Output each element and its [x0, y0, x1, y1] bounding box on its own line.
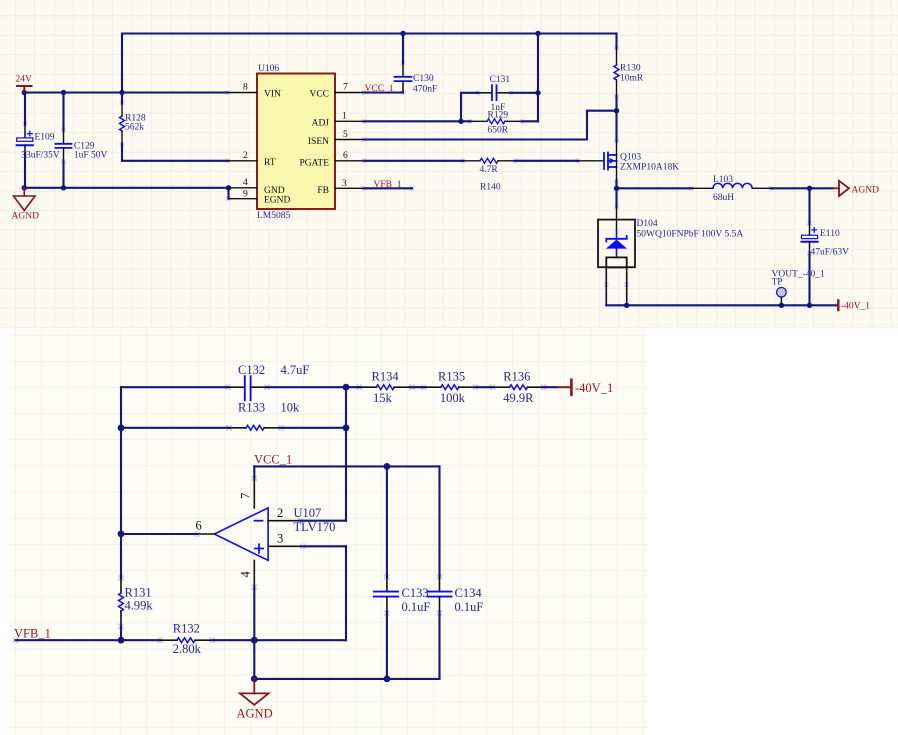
svg-text:D104: D104 [637, 219, 658, 229]
wire VFB row [16, 639, 161, 641]
svg-text:33uF/35V: 33uF/35V [21, 151, 60, 161]
node junction C132 row x346 [343, 384, 350, 391]
node junction E109 bottom [22, 185, 27, 190]
wire D104 anode legs [605, 267, 607, 305]
node junction C129 bottom [61, 185, 66, 190]
svg-text:15k: 15k [373, 391, 393, 405]
svg-text:VCC: VCC [309, 90, 329, 100]
node junction agnd row [251, 676, 258, 683]
transistor Q103 ZXMP10A18K [578, 160, 604, 162]
svg-text:EGND: EGND [264, 196, 291, 206]
node junction EGND jog [226, 185, 231, 190]
svg-text:AGND: AGND [237, 707, 273, 721]
svg-text:4: 4 [243, 178, 248, 188]
wire VCC to C130 [364, 91, 403, 93]
svg-text:-40V_1: -40V_1 [841, 302, 870, 312]
svg-text:2.80k: 2.80k [173, 642, 202, 656]
svg-text:U107: U107 [294, 506, 322, 520]
node junction TP stem [779, 303, 784, 308]
svg-text:3: 3 [277, 532, 283, 546]
resistor R128 562k vertical [121, 93, 123, 104]
resistor R133 10k [229, 427, 246, 429]
node junction C131 right [535, 90, 540, 95]
capacitor C131 1nF parallel branch [461, 93, 478, 122]
wire R133 row [121, 427, 229, 429]
resistor R131 4.99k vertical [120, 578, 122, 593]
svg-text:R140: R140 [480, 183, 501, 193]
capacitor C129 1uF 50V [62, 93, 64, 131]
svg-text:AGND: AGND [12, 212, 40, 222]
svg-text:1uF 50V: 1uF 50V [74, 151, 108, 161]
capacitor E109 33uF/35V polarized [24, 93, 26, 125]
resistor R135 100k [424, 386, 441, 388]
svg-text:100k: 100k [440, 391, 466, 405]
node junction switch node [614, 186, 619, 191]
wire top bus from corner x122 to R130 top [122, 34, 617, 93]
svg-text:AGND: AGND [852, 186, 880, 196]
pin 4 GND [229, 187, 258, 189]
svg-text:FB: FB [317, 186, 329, 196]
resistor R136 49.9R [493, 386, 510, 388]
pin 6 PGATE [335, 160, 364, 162]
svg-text:TP: TP [772, 278, 783, 288]
wire ISEN row with step up [364, 111, 617, 140]
pin 7 vcc [253, 466, 255, 478]
node junction R131 bottom [118, 637, 125, 644]
svg-text:4.7uF: 4.7uF [281, 363, 310, 377]
svg-text:4: 4 [239, 571, 253, 578]
node junction top bus / C131 [535, 31, 540, 36]
wire L103 to AGND port [771, 187, 833, 189]
wire left feedback vertical [120, 387, 122, 578]
wire C131 right vertical from top bus to ADJ row [537, 34, 539, 122]
svg-text:2: 2 [243, 151, 248, 161]
node junction E110 top [807, 186, 812, 191]
wire AGND row [254, 678, 439, 680]
wire output rail y305.3 [606, 304, 838, 306]
node junction C130 top [400, 31, 405, 36]
svg-text:VFB_1: VFB_1 [374, 180, 402, 190]
svg-text:ISEN: ISEN [308, 137, 329, 147]
wire FB stub [364, 187, 412, 189]
svg-text:10k: 10k [281, 401, 301, 415]
svg-text:C130: C130 [413, 74, 434, 84]
svg-text:470nF: 470nF [413, 85, 437, 95]
capacitor E110 47uF/63V polarized [808, 188, 810, 223]
node junction R133 row left [118, 424, 125, 431]
resistor R132 2.80k [160, 639, 177, 641]
node junction C133 bottom [384, 676, 391, 683]
wire VCC row [254, 465, 439, 467]
svg-text:7: 7 [239, 493, 253, 499]
resistor R134 15k [360, 386, 377, 388]
resistor R130 10mR vertical [615, 34, 617, 49]
node junction ISEN / R130 [614, 108, 619, 113]
svg-text:ZXMP10A18K: ZXMP10A18K [620, 163, 679, 173]
node junction C129 top [61, 90, 66, 95]
svg-text:562k: 562k [125, 122, 144, 132]
svg-text:Q103: Q103 [620, 153, 641, 163]
wire ADJ row y121.3 [364, 120, 470, 122]
capacitor C132 4.7uF [228, 386, 245, 388]
svg-text:VFB_1: VFB_1 [14, 627, 51, 641]
svg-text:LM5085: LM5085 [257, 211, 291, 221]
svg-text:6: 6 [343, 151, 348, 161]
svg-text:RT: RT [264, 158, 276, 168]
svg-text:VIN: VIN [264, 90, 281, 100]
node junction output row left [118, 531, 125, 538]
svg-text:0.1uF: 0.1uF [455, 600, 484, 614]
svg-text:GND: GND [264, 186, 285, 196]
svg-text:C132: C132 [238, 363, 265, 377]
svg-text:ADJ: ADJ [312, 118, 330, 128]
power port 24V [17, 86, 32, 93]
svg-text:R136: R136 [503, 370, 530, 384]
svg-text:2: 2 [277, 506, 283, 520]
pin 2 inverting [268, 520, 300, 522]
svg-text:PGATE: PGATE [299, 158, 329, 168]
svg-text:10mR: 10mR [620, 74, 644, 84]
svg-text:0.1uF: 0.1uF [402, 600, 431, 614]
svg-text:VCC_1: VCC_1 [365, 84, 394, 94]
svg-text:49.9R: 49.9R [503, 391, 534, 405]
pin 2 RT [228, 160, 257, 162]
wire EGND jog [227, 188, 229, 199]
svg-text:R132: R132 [173, 622, 200, 636]
node junction VCC row C133 [384, 463, 391, 470]
svg-text:E110: E110 [820, 229, 840, 239]
pin 1 ADJ [335, 120, 364, 122]
node junction ADJ / C131 branch [458, 119, 463, 124]
capacitor C130 470nF [402, 34, 404, 64]
svg-text:650R: 650R [488, 126, 509, 136]
svg-text:3: 3 [342, 179, 347, 189]
svg-text:E109: E109 [35, 133, 55, 143]
svg-text:U106: U106 [258, 64, 279, 74]
svg-text:R130: R130 [620, 64, 641, 74]
svg-text:24V: 24V [16, 75, 33, 85]
wire between R134 R135 [410, 386, 424, 388]
node junction D104 leg [624, 303, 629, 308]
pin 3 noninverting [268, 545, 302, 547]
node junction R128 top [119, 90, 124, 95]
wire C132 to R134 junction [267, 386, 360, 388]
svg-text:4.7R: 4.7R [480, 165, 499, 175]
pin 6 output [197, 533, 214, 535]
wire R136 to -40V_1 [544, 386, 558, 388]
pin 4 vee [253, 560, 255, 587]
wire between R135 R136 [476, 386, 493, 388]
wire switch node to L103 [617, 187, 692, 189]
pin 8 VIN [228, 92, 257, 94]
inductor L103 68uH [692, 187, 714, 189]
svg-text:VCC_1: VCC_1 [254, 453, 292, 467]
pin hotspot markers [13, 46, 812, 643]
capacitor C133 0.1uF [386, 466, 388, 577]
power port -40V_1 bottom [558, 386, 571, 388]
IC U106 LM5085 [257, 74, 335, 210]
svg-text:68uH: 68uH [713, 193, 734, 203]
ground AGND bottom [240, 679, 269, 705]
wire inverting feedback vertical x346 [345, 387, 347, 521]
pin 9 EGND [229, 198, 258, 200]
svg-text:6: 6 [196, 519, 202, 533]
ground AGND top-left [14, 188, 36, 211]
node junction 24V rail / E109 [22, 90, 27, 95]
svg-text:1: 1 [342, 111, 347, 121]
resistor R140 4.7R [463, 160, 480, 162]
resistor R129 650R [470, 120, 487, 122]
node junction pin4 VFB row [251, 637, 258, 644]
op-amp U107 TLV170 [214, 508, 268, 561]
svg-text:4.99k: 4.99k [125, 599, 154, 613]
wire C132 row left [121, 386, 228, 388]
svg-text:C133: C133 [402, 586, 429, 600]
pin 7 VCC [335, 92, 364, 94]
wire pin4 down to agnd row [253, 640, 255, 679]
svg-text:R134: R134 [372, 370, 400, 384]
wire PGATE row y160.8 [364, 160, 463, 162]
svg-text:R133: R133 [238, 401, 265, 415]
node junction E110 bottom [807, 303, 812, 308]
capacitor C134 0.1uF [438, 466, 440, 577]
svg-text:R131: R131 [125, 586, 152, 600]
pin 5 ISEN [335, 139, 364, 141]
svg-text:-40V_1: -40V_1 [575, 381, 613, 395]
svg-text:7: 7 [343, 83, 348, 93]
wire noninverting vertical x346 [345, 546, 347, 640]
wire switch node vertical [616, 167, 618, 181]
port AGND right [833, 181, 850, 196]
wire RT row y160.8 [122, 160, 228, 162]
svg-text:5: 5 [343, 130, 348, 140]
svg-text:R135: R135 [438, 370, 465, 384]
svg-text:9: 9 [243, 190, 248, 200]
svg-text:8: 8 [243, 83, 248, 93]
svg-text:C131: C131 [490, 75, 511, 85]
wire ground rail y187.8 [24, 187, 228, 189]
wire 24V main rail y92.5 [24, 91, 228, 93]
svg-text:C134: C134 [455, 586, 483, 600]
svg-text:47uF/63V: 47uF/63V [811, 248, 850, 258]
node junction R133 row x346 [343, 424, 350, 431]
svg-text:50WQ10FNPbF 100V 5.5A: 50WQ10FNPbF 100V 5.5A [637, 230, 744, 240]
svg-text:1nF: 1nF [491, 103, 506, 113]
diode D104 50WQ10FNPbF in box [616, 207, 618, 229]
pin 3 FB [335, 187, 364, 189]
power port -40V_1 top [837, 301, 839, 311]
svg-text:L103: L103 [713, 175, 733, 185]
svg-text:TLV170: TLV170 [294, 520, 336, 534]
